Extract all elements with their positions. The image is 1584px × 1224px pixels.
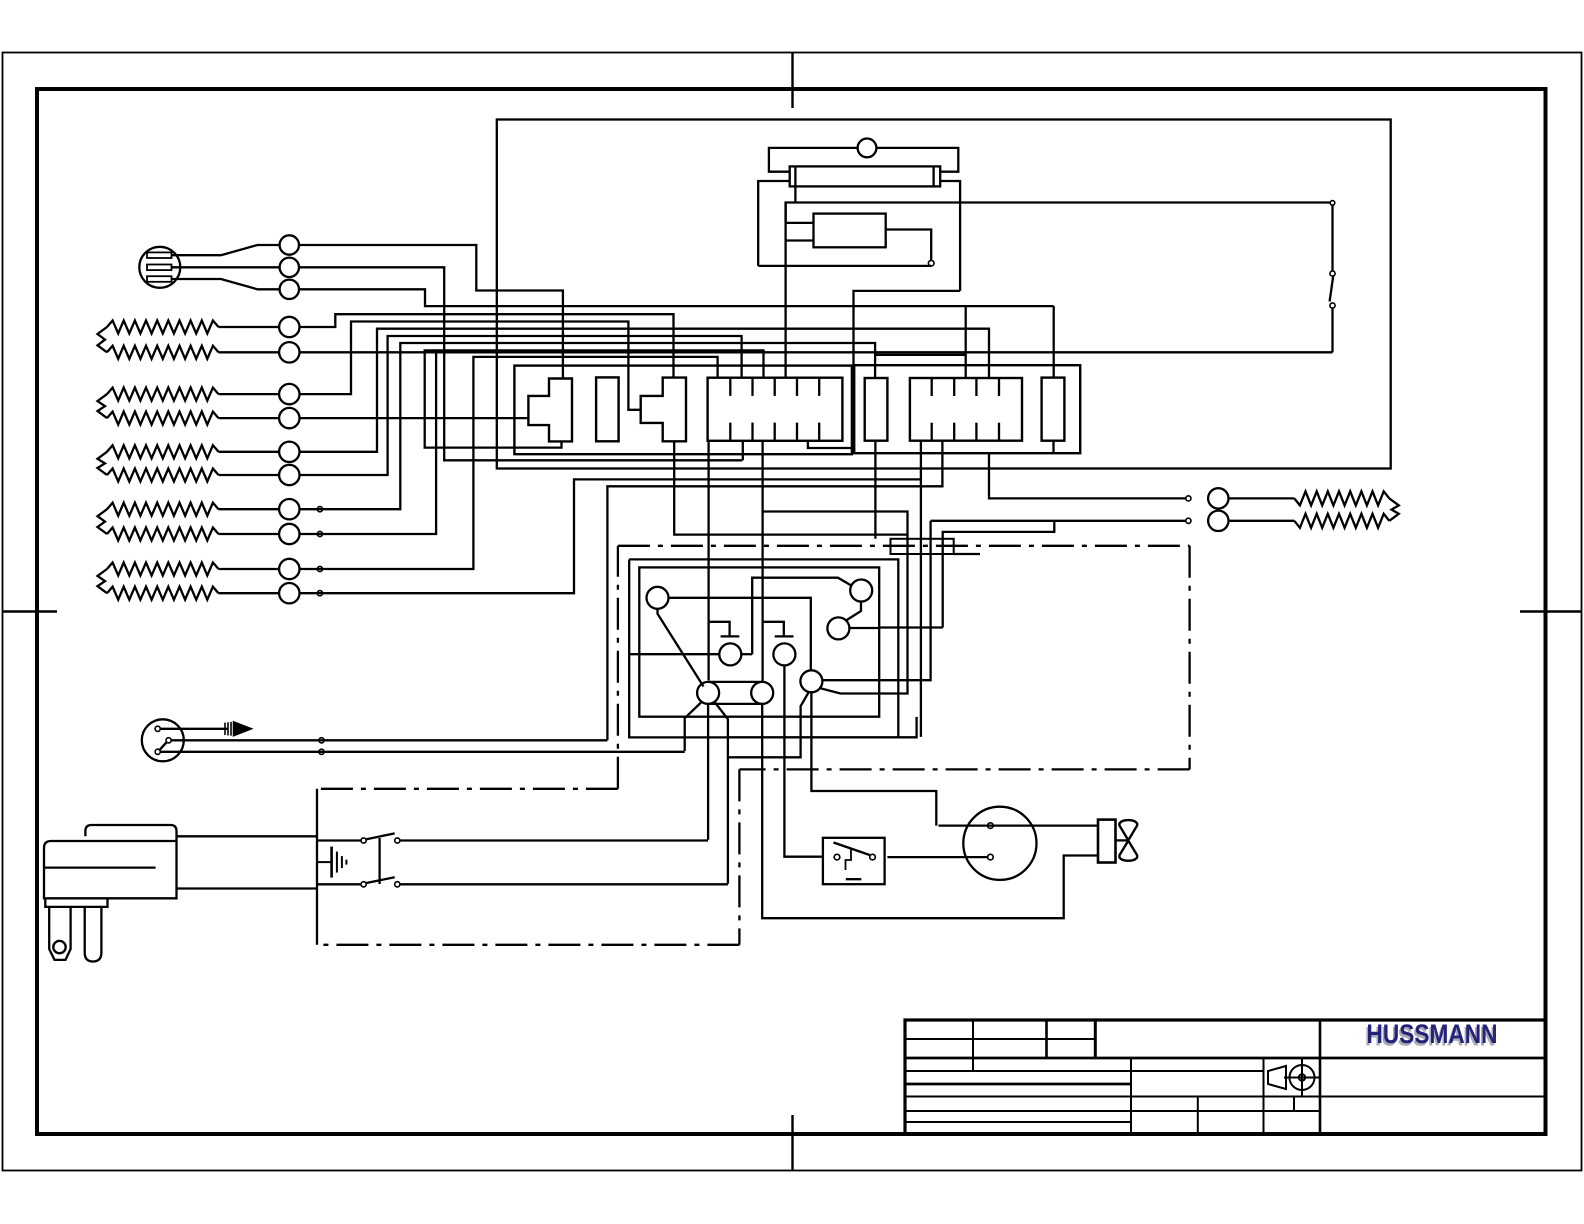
comb1 tooth top xyxy=(729,378,731,396)
heater element H6 zigzag (right) xyxy=(1294,491,1389,505)
sensor terminal circle 3 xyxy=(280,280,299,299)
wire C8 right to heater row2 riser xyxy=(822,521,930,680)
comb2 tooth top xyxy=(998,378,1000,396)
contact circle C5 xyxy=(773,643,795,665)
wire S2 sensor2 riser xyxy=(299,267,742,460)
relay terminal C3 xyxy=(827,617,849,639)
heater H6 connector circle top xyxy=(1208,488,1228,508)
fan switch dot1 xyxy=(834,854,840,860)
svg-text:HUSSMANN: HUSSMANN xyxy=(1367,1019,1498,1049)
power plug body xyxy=(44,836,177,898)
lamp switch stem xyxy=(1331,205,1333,271)
connector comb1 xyxy=(708,378,843,441)
heater H4 connector circle top xyxy=(279,499,299,519)
fan switch dot2 xyxy=(870,854,876,860)
wire H5bot riser xyxy=(299,479,921,593)
fan blades xyxy=(1119,820,1137,861)
thermostat wire C dot xyxy=(319,749,324,754)
control inner box xyxy=(639,567,879,716)
capsule line top xyxy=(708,681,762,683)
comb1 tooth bottom xyxy=(729,423,731,441)
thermostat sensor circle xyxy=(142,719,184,761)
splice dot xyxy=(317,591,322,596)
comb2 tooth top xyxy=(975,378,977,396)
wire C8 stem to motor xyxy=(811,692,936,825)
wire comb1 branch to control box right xyxy=(763,512,907,694)
ballast enclosure right xyxy=(940,181,960,291)
thermostat blade xyxy=(160,742,167,749)
thermostat dot1 xyxy=(155,726,160,731)
power plug boot xyxy=(85,825,176,836)
comb1 tooth bottom xyxy=(751,423,753,441)
thermostat dot3 xyxy=(155,749,160,754)
fan motor circle xyxy=(963,807,1036,880)
wire S3 drop to comb2 xyxy=(965,306,967,378)
lamp switch bottom stem xyxy=(1331,308,1333,352)
heater H1 connector circle bottom xyxy=(279,342,299,362)
disconnect switch row1 wire left xyxy=(317,839,361,841)
arrow head xyxy=(234,722,252,736)
wire H1bot long to lamp switch xyxy=(299,351,1333,353)
comb2 tooth top xyxy=(931,378,933,396)
terminal strip box1 xyxy=(514,366,852,455)
disconnect row2 wire right xyxy=(400,883,728,885)
connector R2 xyxy=(865,378,888,441)
heater element H2 zigzag pair xyxy=(107,388,219,401)
bridge R2top to comb2 xyxy=(875,354,966,356)
tick right center xyxy=(1520,610,1582,612)
connector comb2 xyxy=(910,378,1022,441)
title block outline xyxy=(905,1020,1546,1134)
wire comb1 bottom to contact sym2 xyxy=(761,441,763,622)
heater H4 bottom lead wire xyxy=(219,533,280,535)
heater H1 connector circle top xyxy=(279,317,299,337)
lamp enclosure big box xyxy=(497,120,1391,469)
motor terminal top dot xyxy=(988,823,994,829)
lamp holder circle xyxy=(858,139,877,158)
disconnect row1 blade xyxy=(366,833,394,839)
title block col divider v1095 xyxy=(1094,1020,1097,1058)
wire C8 diag down-left xyxy=(728,692,809,758)
wire comb2 bottom to junction line xyxy=(920,441,922,737)
comb1 tooth top xyxy=(774,378,776,396)
projection symbol cone xyxy=(1268,1066,1286,1089)
comb2 tooth top xyxy=(953,378,955,396)
contact symbol S2 left leg xyxy=(761,622,763,682)
power plug ground pin xyxy=(49,907,70,960)
ballast bottom terminal dot xyxy=(928,260,934,266)
connector T1 xyxy=(528,379,572,442)
disconnect switch link bar xyxy=(378,838,380,884)
lamp switch upper dot xyxy=(1330,271,1335,276)
wire S1 sensor1 to T1 top xyxy=(299,245,563,379)
wire ballast right terminal xyxy=(886,230,932,261)
wire C6 left foot to thermostat xyxy=(685,703,701,751)
wire T2 bottom junction xyxy=(674,441,907,534)
contact symbol S1 left leg xyxy=(707,622,709,681)
connector R3 xyxy=(1042,378,1065,441)
wire H5top to comb1 xyxy=(299,357,718,569)
thermostat wire C xyxy=(160,751,685,753)
thermostat wire B dot xyxy=(319,738,324,743)
heater H1 bottom lead wire xyxy=(219,351,280,353)
dash-dot enclosure boundary xyxy=(317,546,1190,945)
fan hub xyxy=(1098,820,1116,863)
sensor terminal circle 1 xyxy=(280,235,299,254)
splice dot xyxy=(317,531,322,536)
wire heater H6 row2 left xyxy=(931,520,1186,522)
capsule line bottom xyxy=(708,703,762,705)
heater H6 lead bottom xyxy=(1229,520,1295,522)
wire H3bot to comb1 xyxy=(299,336,742,475)
fluorescent tube xyxy=(790,166,941,186)
power cord bottom xyxy=(177,887,318,889)
title block row line y1039 xyxy=(905,1038,1095,1040)
HUSSMANN logo xyxy=(1365,1019,1498,1051)
wire heater row2 jog to relay C3 xyxy=(943,521,1055,628)
heater H3 connector circle bottom xyxy=(279,465,299,485)
wire thermostat B riser xyxy=(607,441,942,741)
heater element H4 zigzag pair xyxy=(107,503,219,516)
title block col divider v1198 xyxy=(1197,1097,1199,1135)
thermostat dot2 xyxy=(166,738,171,743)
sensor wire 2 lead xyxy=(172,266,280,268)
heater H4 connector circle bottom xyxy=(279,524,299,544)
tube end cap right xyxy=(932,166,934,186)
disconnect row2 blade xyxy=(366,877,394,883)
wire R2 bottom to pass rect xyxy=(874,441,876,539)
title block row line y1096 xyxy=(905,1096,1546,1098)
contact symbol S1 bar xyxy=(721,635,740,637)
wire H3top to comb2 xyxy=(299,329,989,452)
title block col divider v1131 xyxy=(1130,1058,1132,1134)
fan switch base mark xyxy=(846,878,862,880)
fan hub stub xyxy=(1116,839,1129,841)
title block col divider v973 xyxy=(972,1020,974,1071)
contact symbol S1 frame xyxy=(709,622,730,636)
relay terminal C1 xyxy=(647,587,669,609)
heater H2 bottom lead wire xyxy=(219,417,280,419)
power plug body line xyxy=(44,866,156,868)
comb2 tooth bottom xyxy=(953,423,955,441)
comb2 tooth bottom xyxy=(975,423,977,441)
heater H3 connector circle top xyxy=(279,442,299,462)
contact symbol S2 frame xyxy=(763,622,784,636)
sensor plug circle xyxy=(139,247,180,288)
wire H4top to R2 xyxy=(299,343,875,509)
ballast enclosure left xyxy=(758,181,790,266)
heater H4 top lead wire xyxy=(219,508,280,510)
heater H6 splice dot bottom xyxy=(1186,518,1191,523)
wire C6 stem to switch row1 xyxy=(707,704,709,840)
comb1 tooth bottom xyxy=(818,423,820,441)
heater H3 bottom lead wire xyxy=(219,474,280,476)
motor start terminal C6 xyxy=(697,682,719,704)
sensor wire 1 lead xyxy=(172,245,280,255)
control outer box xyxy=(629,559,916,737)
wire C6 right foot to switch row2 xyxy=(715,703,728,884)
disconnect row1 wire right xyxy=(400,839,708,841)
motor run terminal C7 xyxy=(751,682,773,704)
wire tube left cap down xyxy=(794,186,796,202)
pass-through rect xyxy=(891,539,954,554)
title block col divider v1046 xyxy=(1045,1020,1048,1058)
sensor terminal circle 2 xyxy=(280,258,299,277)
lamp switch lower dot xyxy=(1330,303,1335,308)
wire H1top to T2 top xyxy=(299,314,674,377)
tick bottom center xyxy=(791,1115,793,1170)
heater H1 top lead wire xyxy=(219,326,280,328)
wire ballast right to strip xyxy=(808,291,960,448)
power cord top xyxy=(177,835,318,837)
tube end cap left xyxy=(794,166,796,186)
heater element H1 zigzag pair xyxy=(107,321,219,334)
wire heater H6 row1 to comb2 xyxy=(989,453,1186,499)
junction wire under control box xyxy=(728,736,917,738)
power plug blade xyxy=(85,907,102,962)
relay terminal C8 xyxy=(800,670,822,692)
wire H2top to T2 notch xyxy=(299,322,641,410)
splice dot xyxy=(317,566,322,571)
disconnect row1 dot1 xyxy=(361,838,366,843)
title block row line y1111 xyxy=(905,1110,1320,1112)
wire C7 stem to fan xyxy=(762,704,1098,918)
wire S3 drop to R3 xyxy=(1053,306,1055,378)
comb1 tooth top xyxy=(751,378,753,396)
wire C1 diag to C6 xyxy=(658,609,704,687)
tick left center xyxy=(2,610,57,612)
heater H6 lead top xyxy=(1229,497,1295,499)
wire C1 to C8 xyxy=(669,598,811,671)
fan switch thermal hook xyxy=(846,850,852,871)
heater H3 top lead wire xyxy=(219,451,280,453)
heater H5 connector circle bottom xyxy=(279,583,299,603)
relay terminal C2 xyxy=(850,580,872,602)
power entry vertical xyxy=(316,789,318,945)
title block row line y1071 xyxy=(905,1070,1264,1072)
heater H5 top lead wire xyxy=(219,568,280,570)
comb1 tooth bottom xyxy=(796,423,798,441)
fan switch box xyxy=(823,838,885,884)
wire motor to fan xyxy=(939,824,1099,826)
thermostat wire B xyxy=(171,739,607,741)
title block row line y1122 xyxy=(905,1121,1131,1123)
projection symbol circle crosshair xyxy=(1284,1059,1320,1097)
thermostat arrow wire xyxy=(160,728,228,730)
wire to C2 xyxy=(752,578,851,655)
connector T2 xyxy=(641,378,686,442)
lamp switch top dot xyxy=(1330,201,1335,206)
comb1 tooth bottom xyxy=(774,423,776,441)
heater element H5 zigzag pair xyxy=(107,563,219,576)
wire C2 to C3 link xyxy=(846,602,861,621)
heater H2 connector circle bottom xyxy=(279,408,299,428)
heater H5 bottom lead wire xyxy=(219,592,280,594)
wire ballast stub1 xyxy=(786,222,814,224)
ground pin hole xyxy=(53,941,65,953)
title block col divider v1294 xyxy=(1293,1097,1295,1112)
wire H4bot jog to T1 bottom xyxy=(425,350,562,447)
wire C4 right xyxy=(741,653,752,655)
wire comb1 bottom to S2 line xyxy=(742,441,744,461)
wire comb1 bottom to contact sym1 xyxy=(707,441,709,622)
lamp reflector bracket xyxy=(769,148,958,172)
wire C5 stem to fan switch xyxy=(784,666,823,857)
motor terminal bottom dot xyxy=(988,854,994,860)
disconnect switch row2 wire left xyxy=(317,883,361,885)
comb1 tooth top xyxy=(818,378,820,396)
power plug base xyxy=(45,898,107,907)
heater H2 top lead wire xyxy=(219,393,280,395)
wire R3 bottom stub xyxy=(1052,441,1054,454)
wire H2bot to T1 notch xyxy=(299,417,528,419)
wire ballast left vertical xyxy=(784,203,786,378)
splice dot xyxy=(317,507,322,512)
comb1 tooth top xyxy=(796,378,798,396)
wire H4bot via jog to comb1 xyxy=(299,350,764,534)
tick top center xyxy=(791,52,793,108)
connector R1 xyxy=(596,377,619,441)
comb2 tooth bottom xyxy=(931,423,933,441)
wire ballast stub2 xyxy=(786,239,814,241)
wire fan switch to motor xyxy=(887,856,987,858)
heater H5 connector circle top xyxy=(279,559,299,579)
lamp switch blade xyxy=(1330,276,1334,302)
contact circle C4 xyxy=(719,643,741,665)
sensor wire 3 lead xyxy=(172,279,280,289)
disconnect row1 dot2 xyxy=(395,838,400,843)
ballast box xyxy=(814,214,886,248)
heater element H3 zigzag pair xyxy=(107,445,219,458)
comb2 tooth bottom xyxy=(998,423,1000,441)
title block row line y1084 xyxy=(905,1083,1131,1086)
title block col divider v1263 xyxy=(1263,1058,1265,1134)
heater H6 connector circle bottom xyxy=(1208,511,1228,531)
title block row line y1058 xyxy=(905,1057,1546,1060)
wire ballast top long to lamp switch xyxy=(786,203,1331,223)
ballast enclosure bottom xyxy=(758,265,931,267)
pass-through rect tail xyxy=(954,553,980,555)
ground symbol xyxy=(317,847,346,878)
wire C4 left xyxy=(629,653,719,655)
sensor plug pin bars xyxy=(147,252,172,281)
contact symbol S2 bar xyxy=(775,635,794,637)
wire C3 right xyxy=(849,626,942,629)
fan switch blade xyxy=(834,843,870,856)
heater H6 splice dot top xyxy=(1186,496,1191,501)
wire S3 sensor3 long line xyxy=(299,289,1054,306)
disconnect row2 dot1 xyxy=(361,882,366,887)
terminal strip box2 xyxy=(854,365,1080,453)
heater H2 connector circle top xyxy=(279,384,299,404)
title block logo cell divider v1320 xyxy=(1319,1020,1322,1134)
disconnect row2 dot2 xyxy=(395,882,400,887)
